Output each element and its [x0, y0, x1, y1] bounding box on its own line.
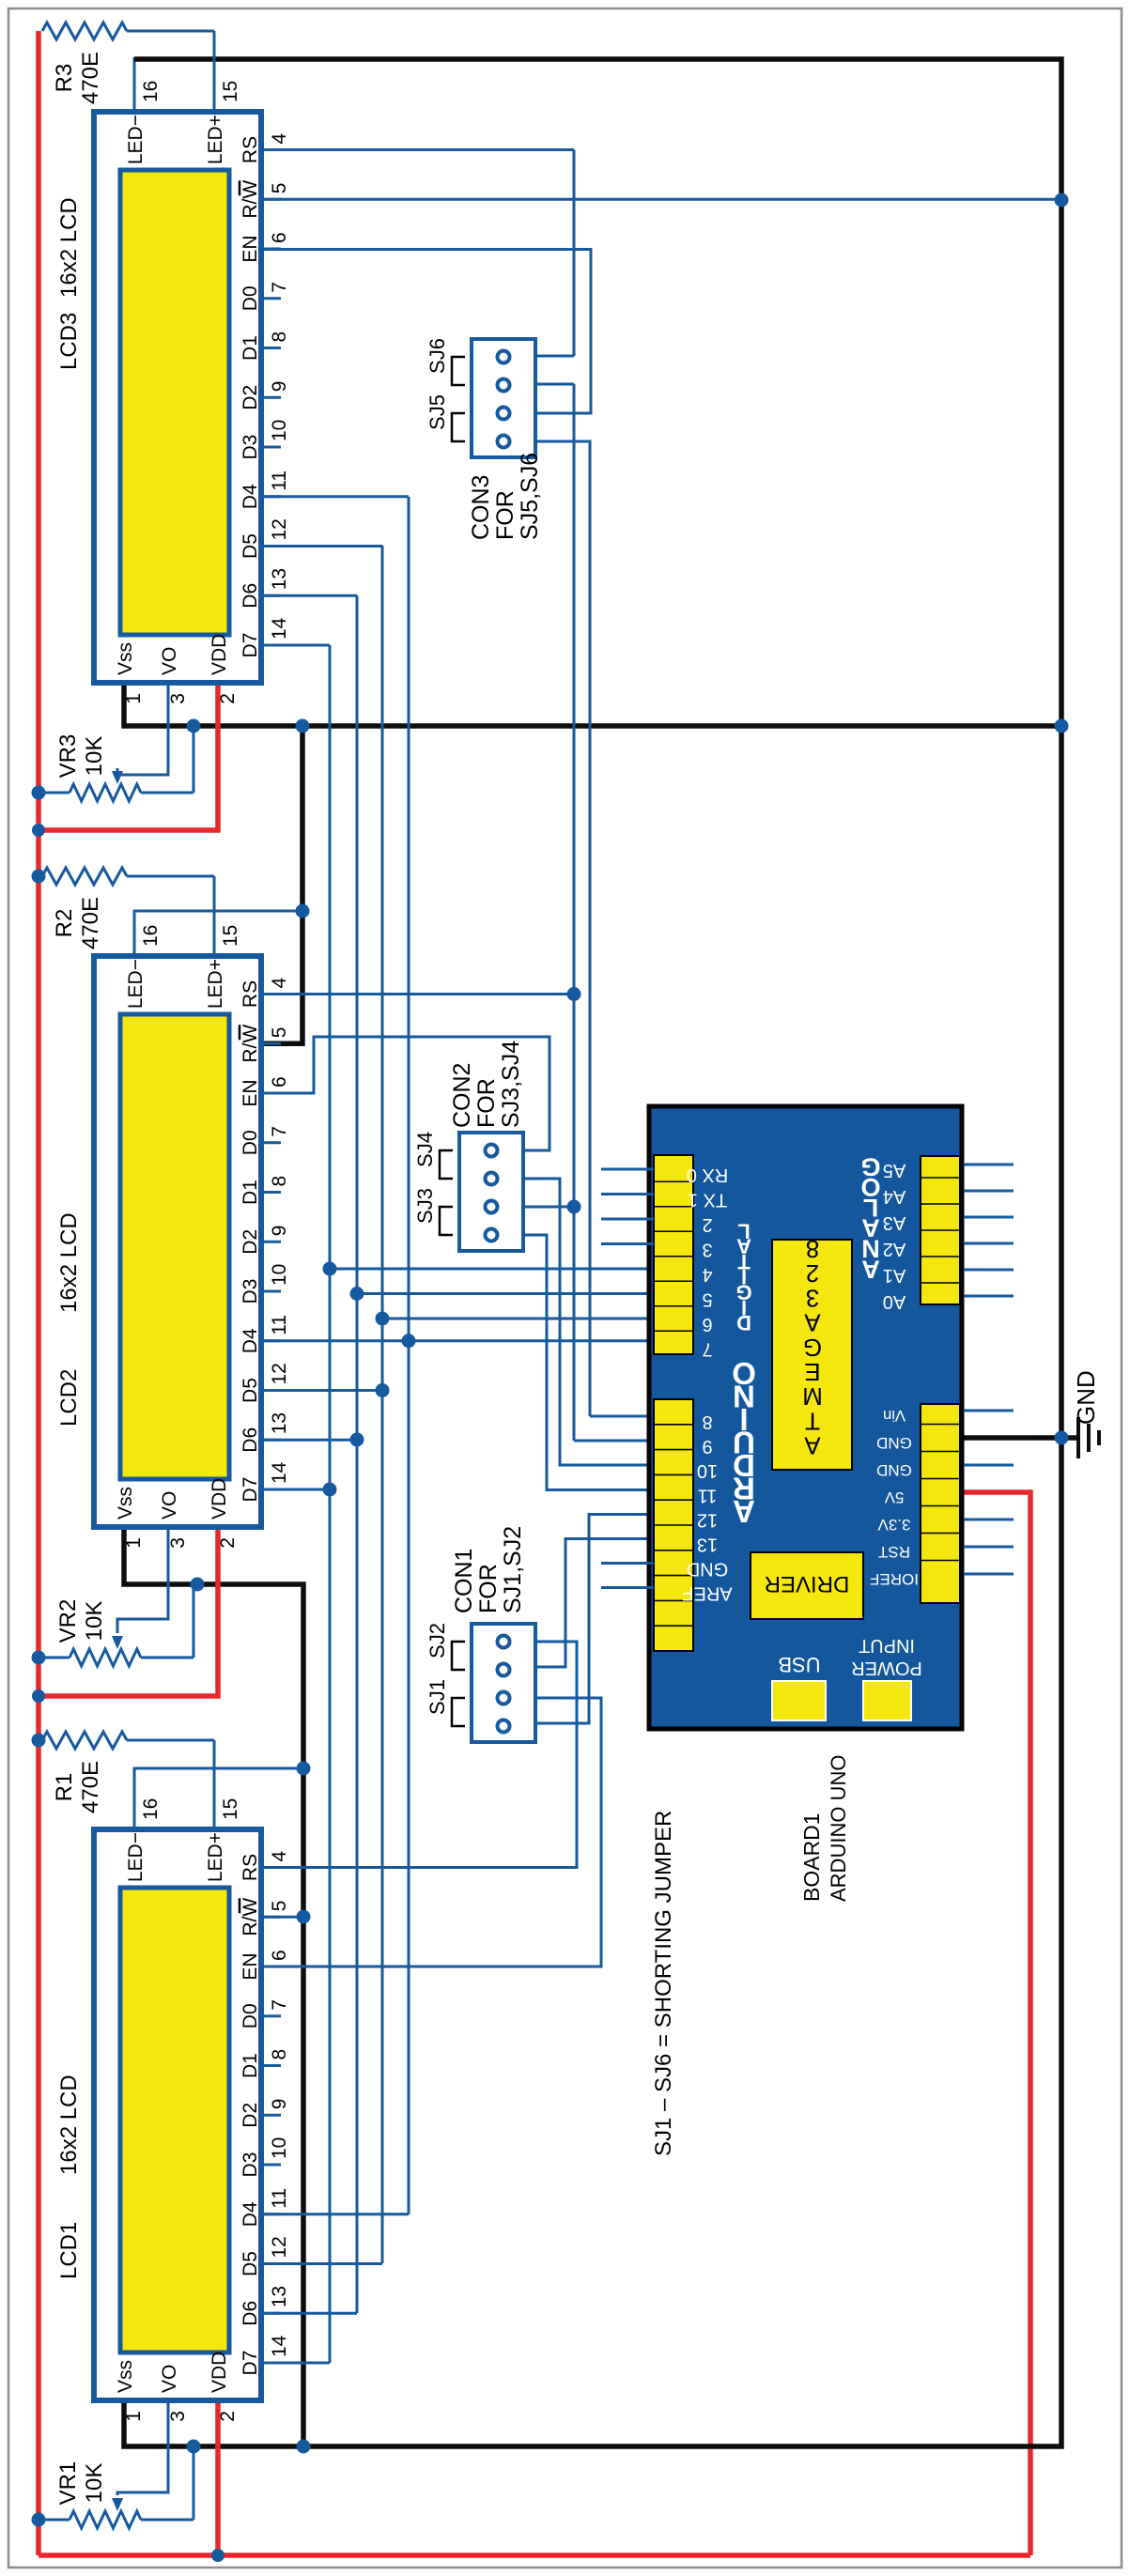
wire LCD3 VDD 5V: [39, 686, 218, 830]
wire LCD2 D4 to Arduino pin7: [264, 1339, 654, 1342]
wire Arduino pin4 riser: [330, 1268, 654, 1271]
svg-text:LED−: LED−: [125, 959, 147, 1009]
svg-text:D7: D7: [240, 1477, 261, 1503]
svg-text:LED−: LED−: [125, 1832, 147, 1882]
svg-text:4: 4: [702, 1264, 712, 1285]
svg-text:D5: D5: [240, 1378, 261, 1403]
svg-text:5: 5: [269, 183, 290, 194]
svg-text:A4: A4: [883, 1186, 906, 1207]
svg-text:12: 12: [697, 1510, 718, 1531]
svg-text:10: 10: [269, 420, 290, 441]
wire Arduino pin5 riser: [357, 1292, 654, 1295]
svg-text:EN: EN: [240, 1952, 261, 1980]
svg-text:3.3V: 3.3V: [877, 1516, 911, 1534]
wire LCD3 R/W to GND bus: [264, 198, 1061, 201]
svg-text:3: 3: [167, 2411, 189, 2422]
svg-text:470E: 470E: [78, 1761, 103, 1813]
svg-text:4: 4: [269, 133, 290, 145]
svg-text:GND: GND: [687, 1559, 728, 1580]
svg-text:2: 2: [702, 1214, 712, 1235]
svg-text:VDD: VDD: [209, 1478, 230, 1519]
svg-text:11: 11: [269, 2188, 290, 2209]
GND bus LCD3 left leg: [124, 686, 1061, 726]
svg-text:10: 10: [269, 2137, 290, 2159]
svg-text:INPUT: INPUT: [859, 1635, 915, 1656]
svg-text:DRIVER: DRIVER: [765, 1571, 850, 1597]
svg-text:11: 11: [269, 470, 290, 491]
svg-text:R/W: R/W: [240, 1898, 261, 1936]
svg-text:15: 15: [220, 81, 241, 102]
svg-text:D6: D6: [240, 2301, 261, 2326]
svg-text:8: 8: [806, 1235, 819, 1263]
wire LCD1 D4 drop: [264, 2213, 409, 2215]
svg-text:5: 5: [269, 1901, 290, 1912]
wire LCD2 D6 drop: [264, 1439, 357, 1442]
svg-text:6: 6: [702, 1314, 712, 1334]
svg-text:A5: A5: [883, 1160, 906, 1180]
jumper SJ6 bracket: [452, 357, 465, 385]
connector CON1: [472, 1624, 535, 1742]
resistor R3 470E: [42, 23, 214, 109]
svg-text:LED+: LED+: [205, 1832, 226, 1882]
svg-text:4: 4: [269, 1851, 290, 1862]
svg-text:1: 1: [123, 693, 145, 704]
svg-text:RST: RST: [878, 1543, 910, 1561]
wire RS1 row into CON1 pin1: [264, 1642, 577, 1868]
wire LCD3 D4 drop: [264, 495, 409, 498]
svg-text:FOR: FOR: [492, 490, 519, 540]
svg-text:Vss: Vss: [115, 2360, 136, 2393]
jumper SJ1 bracket: [452, 1698, 465, 1726]
svg-text:8: 8: [702, 1411, 712, 1432]
svg-text:12: 12: [269, 518, 290, 540]
wire LCD1 D5 drop: [264, 2262, 382, 2265]
svg-text:6: 6: [269, 1076, 290, 1087]
svg-text:14: 14: [269, 1461, 290, 1484]
svg-text:9: 9: [269, 381, 290, 393]
svg-text:EN: EN: [240, 235, 261, 262]
svg-text:10K: 10K: [82, 2463, 107, 2504]
wire D4 bus row: [408, 497, 410, 2214]
svg-text:16: 16: [140, 81, 162, 102]
svg-text:SJ3: SJ3: [413, 1188, 437, 1224]
svg-text:11: 11: [269, 1315, 290, 1335]
svg-text:RX 0: RX 0: [687, 1165, 728, 1185]
wire LCD3 D5 drop: [264, 545, 382, 548]
wire LCD2 R/W to GND: [264, 726, 302, 1043]
svg-text:SJ3,SJ4: SJ3,SJ4: [498, 1041, 524, 1128]
wire Arduino pin6 riser: [382, 1318, 654, 1320]
LCD1 16x2 LCD module: [56, 1798, 290, 2422]
svg-text:AREF: AREF: [682, 1583, 732, 1604]
svg-text:9: 9: [702, 1436, 712, 1457]
svg-text:13: 13: [269, 568, 290, 590]
svg-text:Vss: Vss: [115, 642, 136, 675]
svg-text:A3: A3: [883, 1212, 906, 1233]
svg-text:D4: D4: [240, 1328, 261, 1353]
svg-text:D3: D3: [240, 2152, 261, 2178]
svg-text:R3: R3: [52, 64, 77, 93]
wire LCD2 D7 drop: [264, 1489, 330, 1491]
svg-text:D3: D3: [240, 435, 261, 460]
svg-text:POWER: POWER: [851, 1658, 922, 1678]
svg-text:RS: RS: [240, 1854, 261, 1881]
wire CON3 pin2 stub: [535, 383, 574, 386]
wire CON1 pin2 link to Arduino pin13: [535, 1539, 654, 1668]
svg-text:VR1: VR1: [55, 2461, 81, 2506]
resistor R2 470E: [42, 868, 214, 953]
svg-text:10K: 10K: [82, 1601, 107, 1642]
junction dots RS/EN rows: [567, 987, 581, 1001]
svg-text:D6: D6: [240, 583, 261, 609]
svg-text:FOR: FOR: [473, 1078, 500, 1128]
connector CON2: [459, 1133, 523, 1251]
svg-text:D1: D1: [240, 1180, 261, 1205]
svg-text:10: 10: [269, 1264, 290, 1286]
svg-text:7: 7: [269, 282, 290, 293]
wire 5V red left leg down: [39, 2553, 1030, 2558]
svg-text:14: 14: [269, 2335, 290, 2357]
svg-text:D2: D2: [240, 385, 261, 410]
svg-text:CON2: CON2: [449, 1063, 475, 1128]
wire Arduino pin9 riser: [574, 1440, 654, 1442]
svg-text:A0: A0: [883, 1291, 906, 1312]
wire EN1 row into CON1 pin3: [264, 1698, 601, 1967]
wire D6 bus row: [356, 595, 359, 2313]
svg-text:D7: D7: [240, 2351, 261, 2376]
svg-text:D4: D4: [240, 484, 261, 509]
wire Arduino GND pin to bus: [964, 1435, 1076, 1441]
svg-text:1: 1: [123, 1537, 145, 1549]
wire EN2 jog into CON2 pin1: [264, 1037, 550, 1150]
svg-text:Vin: Vin: [883, 1407, 906, 1425]
svg-text:16x2 LCD: 16x2 LCD: [56, 197, 82, 298]
svg-text:RS: RS: [240, 136, 261, 163]
svg-text:16x2 LCD: 16x2 LCD: [56, 2075, 82, 2175]
svg-text:VR2: VR2: [55, 1599, 81, 1643]
svg-text:SJ5: SJ5: [426, 394, 449, 430]
wire stubs analog pins: [964, 1295, 1014, 1298]
svg-text:O: O: [732, 1356, 756, 1391]
svg-text:G: G: [860, 1152, 880, 1180]
svg-text:D5: D5: [240, 533, 261, 559]
wire CON3 pin4 row to Arduino pin8: [535, 441, 590, 1416]
svg-text:16: 16: [140, 925, 162, 947]
svg-text:7: 7: [269, 1126, 290, 1137]
svg-text:9: 9: [269, 1226, 290, 1237]
svg-text:14: 14: [269, 617, 290, 640]
wire D5 bus row: [381, 546, 384, 2263]
svg-text:GND: GND: [1072, 1370, 1100, 1425]
wire CON2 pin3 stub to RS bus: [523, 1206, 574, 1209]
svg-text:9: 9: [269, 2099, 290, 2110]
wire LCD3 D7 drop: [264, 644, 330, 647]
svg-text:SJ4: SJ4: [413, 1132, 437, 1167]
wire CON1 pin4 row to Arduino pin12: [535, 1515, 654, 1724]
svg-text:D0: D0: [240, 1130, 261, 1155]
svg-text:LCD1: LCD1: [56, 2222, 82, 2279]
jumper SJ3 bracket: [440, 1207, 453, 1235]
svg-text:D0: D0: [240, 285, 261, 311]
wire D7 bus row: [329, 645, 332, 2363]
LCD3 16x2 LCD module: [56, 81, 290, 704]
svg-text:16: 16: [140, 1798, 162, 1820]
svg-text:CON1: CON1: [451, 1549, 477, 1613]
svg-text:8: 8: [269, 2049, 290, 2060]
svg-text:7: 7: [702, 1339, 712, 1360]
svg-text:ARDUINO UNO: ARDUINO UNO: [827, 1755, 850, 1902]
junction rail dots: [32, 2513, 46, 2527]
svg-text:R/W: R/W: [240, 180, 261, 219]
svg-text:6: 6: [269, 232, 290, 243]
svg-text:R2: R2: [52, 909, 77, 938]
wire LCD3 LED- stub: [133, 57, 136, 109]
svg-text:12: 12: [269, 1363, 290, 1384]
svg-text:GND: GND: [876, 1434, 912, 1452]
svg-text:LED+: LED+: [205, 115, 226, 164]
junction GND dots: [297, 2440, 311, 2454]
svg-text:CON3: CON3: [468, 475, 494, 540]
svg-text:VO: VO: [159, 2365, 180, 2393]
GND bus LCD2 leg to LCD1: [124, 1530, 303, 2446]
svg-text:6: 6: [269, 1950, 290, 1961]
svg-text:470E: 470E: [78, 52, 103, 104]
svg-text:13: 13: [269, 1412, 290, 1434]
svg-text:D4: D4: [240, 2201, 261, 2227]
svg-text:A2: A2: [883, 1239, 906, 1259]
svg-text:Vss: Vss: [115, 1487, 136, 1519]
jumper SJ4 bracket: [440, 1150, 453, 1179]
svg-text:SJ1: SJ1: [426, 1679, 449, 1715]
svg-text:BOARD1: BOARD1: [799, 1812, 824, 1902]
svg-text:D6: D6: [240, 1427, 261, 1453]
svg-text:VR3: VR3: [55, 734, 81, 779]
svg-text:VDD: VDD: [209, 2352, 230, 2393]
wire LCD1 R/W to GND: [264, 1916, 303, 1919]
junction dots data buses: [323, 1483, 337, 1497]
svg-text:5: 5: [269, 1027, 290, 1039]
LCD2 16x2 LCD module: [56, 925, 290, 1549]
svg-text:D7: D7: [240, 633, 261, 658]
svg-text:TX 1: TX 1: [688, 1190, 727, 1211]
svg-text:SJ5,SJ6: SJ5,SJ6: [517, 453, 543, 540]
wire LCD1 LED- riser to GND: [134, 1768, 303, 1827]
svg-text:LED−: LED−: [125, 115, 147, 164]
svg-text:12: 12: [269, 2236, 290, 2258]
svg-text:D0: D0: [240, 2003, 261, 2028]
svg-text:4: 4: [269, 978, 290, 989]
wire CON3 pin1 stub: [535, 355, 574, 358]
svg-text:D1: D1: [240, 2053, 261, 2078]
svg-text:IOREF: IOREF: [870, 1570, 919, 1588]
svg-text:VO: VO: [159, 1491, 180, 1519]
svg-text:D2: D2: [240, 2103, 261, 2128]
svg-text:RS: RS: [240, 980, 261, 1008]
svg-text:D2: D2: [240, 1229, 261, 1255]
wire EN3 link into CON3 pin3: [264, 250, 591, 414]
wire RS bus row to Arduino pin9: [573, 384, 576, 1441]
svg-text:VO: VO: [159, 647, 180, 675]
svg-text:13: 13: [269, 2286, 290, 2307]
svg-text:1: 1: [123, 2411, 145, 2422]
svg-text:SJ6: SJ6: [426, 338, 449, 374]
svg-text:5V: 5V: [884, 1489, 904, 1506]
svg-text:SJ1 – SJ6 = SHORTING JUMPER: SJ1 – SJ6 = SHORTING JUMPER: [651, 1811, 676, 2156]
svg-text:8: 8: [269, 1176, 290, 1187]
resistor R1 470E: [42, 1732, 214, 1827]
wire LCD2 VDD 5V: [39, 1530, 218, 1696]
svg-text:R/W: R/W: [240, 1025, 261, 1063]
svg-text:D5: D5: [240, 2251, 261, 2276]
svg-text:D1: D1: [240, 335, 261, 361]
svg-text:13: 13: [697, 1535, 718, 1555]
wire LCD1 VDD 5V: [215, 2403, 221, 2555]
ground symbol: [1078, 1417, 1099, 1458]
wire LCD1 D6 drop: [264, 2312, 357, 2315]
potentiometer VR3 10K: [39, 686, 193, 801]
jumper SJ2 bracket: [452, 1642, 465, 1670]
wire CON2 pin2 row to Arduino pin10: [523, 1179, 654, 1465]
junction rail dots: [32, 1651, 46, 1665]
wire LCD3 D6 drop: [264, 594, 357, 597]
connector CON3: [472, 339, 535, 457]
svg-text:LED+: LED+: [205, 959, 226, 1009]
svg-text:15: 15: [220, 1798, 241, 1820]
svg-text:8: 8: [269, 332, 290, 343]
svg-text:L: L: [737, 1219, 750, 1242]
potentiometer VR1 10K: [39, 2403, 193, 2528]
wire CON2 pin4 row to Arduino pin11: [523, 1235, 654, 1490]
junction rail dots: [32, 786, 46, 800]
svg-text:5: 5: [702, 1289, 712, 1310]
svg-text:FOR: FOR: [475, 1564, 502, 1613]
wire RS2 drop: [264, 993, 574, 995]
wire stubs power pins: [964, 1410, 1014, 1412]
wire Arduino pin8 riser: [590, 1415, 654, 1418]
svg-text:LCD2: LCD2: [56, 1369, 82, 1427]
svg-text:A1: A1: [883, 1265, 906, 1286]
svg-text:VDD: VDD: [209, 634, 230, 675]
svg-text:SJ2: SJ2: [426, 1623, 449, 1658]
svg-text:15: 15: [220, 925, 241, 947]
svg-text:D3: D3: [240, 1279, 261, 1304]
wire RS3 drop: [264, 148, 574, 151]
svg-text:SJ1,SJ2: SJ1,SJ2: [500, 1526, 526, 1613]
svg-text:USB: USB: [778, 1653, 820, 1676]
svg-text:470E: 470E: [78, 897, 103, 949]
svg-text:7: 7: [269, 1999, 290, 2011]
wire stubs digital unconnected pins: [601, 1242, 654, 1245]
wire 5V red bottom run to Arduino: [964, 1492, 1030, 2555]
jumper SJ5 bracket: [452, 413, 465, 441]
GND bus main loop: [124, 59, 1061, 2446]
svg-text:R1: R1: [52, 1773, 77, 1802]
svg-text:16x2 LCD: 16x2 LCD: [56, 1212, 82, 1313]
wire 5V red rail (top): [36, 31, 41, 2555]
wire LCD2 LED- riser to GND: [134, 911, 302, 953]
Arduino board BOARD1: [649, 1106, 962, 1729]
svg-text:3: 3: [167, 693, 189, 704]
svg-text:10: 10: [697, 1460, 718, 1481]
svg-text:10K: 10K: [82, 736, 107, 777]
svg-text:LCD3: LCD3: [56, 313, 82, 370]
svg-text:3: 3: [167, 1537, 189, 1549]
svg-text:11: 11: [698, 1486, 718, 1506]
wire LCD1 D7 drop: [264, 2362, 330, 2365]
potentiometer VR2 10K: [39, 1530, 193, 1666]
wire RS3 link into CON3 pin1: [573, 150, 576, 357]
svg-text:3: 3: [702, 1240, 712, 1260]
svg-text:EN: EN: [240, 1079, 261, 1106]
wire LCD2 D5 drop: [264, 1389, 382, 1392]
svg-text:GND: GND: [876, 1461, 912, 1479]
